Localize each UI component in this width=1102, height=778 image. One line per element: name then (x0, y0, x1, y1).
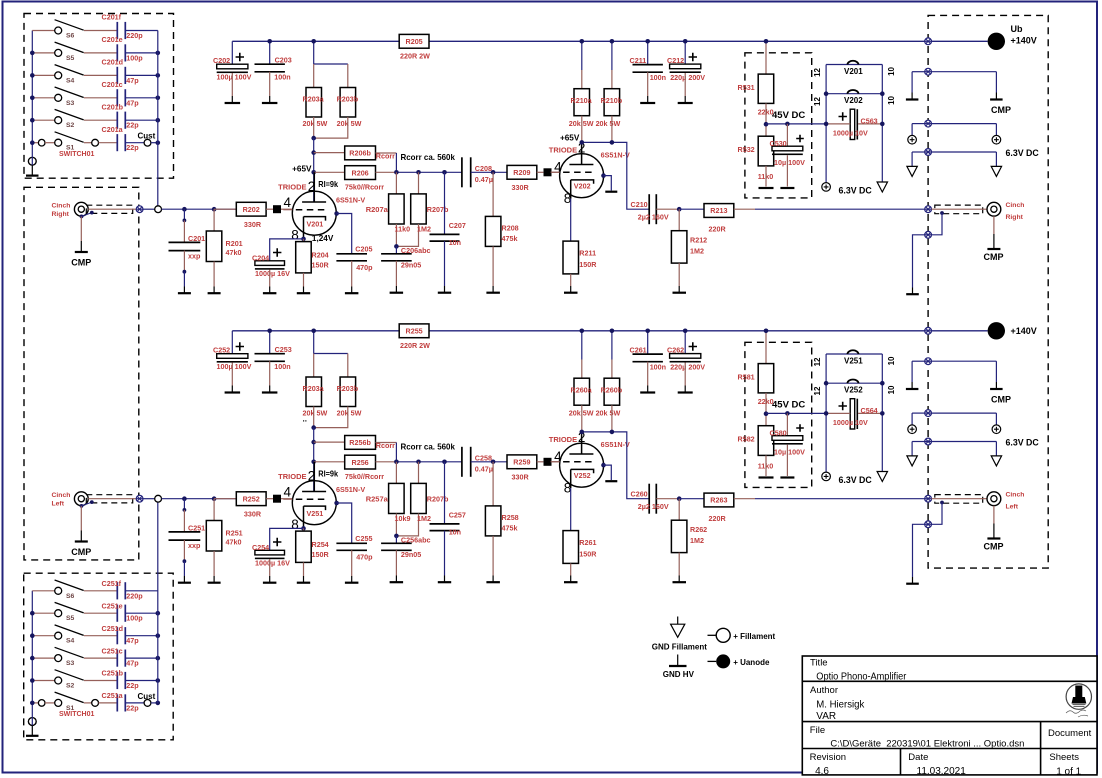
connector square V252 grid (544, 458, 552, 466)
+ filament symbol heater (822, 183, 831, 192)
junction right bus S5 (156, 611, 161, 616)
wire S1 to circle (84, 702, 92, 704)
junction right bus S1 (156, 140, 161, 145)
junction heater bus right (880, 381, 885, 386)
wire 45V to heater bus (766, 123, 826, 125)
resistor R256 (345, 455, 376, 469)
ground C202 (225, 96, 241, 103)
pin 4 V202 grid lead (551, 171, 560, 173)
wire heater bus right (881, 354, 883, 472)
triode V252 (560, 443, 604, 487)
triode V201 (292, 191, 336, 235)
svg-text:xxp: xxp (188, 541, 201, 550)
filament ground right (991, 456, 1001, 466)
wire C210 to node (656, 208, 679, 210)
wire tri left drop (911, 442, 913, 456)
wire to C256abc (395, 536, 397, 543)
wire S2 to capacitor C251b (84, 680, 117, 682)
polarity + C262 (689, 342, 697, 350)
svg-text:Cinch: Cinch (1006, 202, 1025, 209)
junction bus/C563 left (824, 122, 829, 127)
svg-text:C251f: C251f (102, 579, 122, 588)
svg-text:R261: R261 (579, 538, 596, 547)
junction output shield (940, 501, 944, 505)
resistor R205 (399, 34, 429, 48)
wire R209 to grid (537, 171, 544, 173)
wire R207a to C206abc (395, 224, 397, 246)
svg-text:CMP: CMP (991, 395, 1011, 405)
svg-text:V201: V201 (844, 67, 863, 76)
svg-text:R263: R263 (710, 496, 727, 505)
svg-text:29n05: 29n05 (401, 260, 421, 269)
wire S4 to capacitor C201d (84, 74, 117, 76)
wire rail to C202 (231, 41, 233, 64)
svg-text:V202: V202 (844, 96, 863, 105)
wire cathode to C254 (270, 528, 304, 550)
wire cinch to feedthrough (88, 498, 136, 500)
wire V251 grid (296, 498, 328, 500)
wire C201f to right bus (125, 30, 158, 32)
node Ub +140V terminal (988, 33, 1005, 50)
svg-text:SWITCH01: SWITCH01 (59, 711, 95, 718)
wire C211 to ground (647, 72, 649, 96)
svg-text:R208: R208 (502, 223, 519, 232)
svg-text:Rcorr ca. 560k: Rcorr ca. 560k (401, 153, 456, 162)
wire 6.3V row left (912, 441, 925, 443)
junction rail/C203 (267, 39, 272, 44)
wire output net (755, 498, 925, 500)
svg-text:C206abc: C206abc (401, 246, 431, 255)
wire R260b top lead (611, 360, 613, 379)
svg-text:Rcorr: Rcorr (376, 441, 395, 450)
svg-text:22p: 22p (126, 143, 139, 152)
junction left bus S5 (30, 51, 35, 56)
wire R258 to ground (492, 536, 494, 576)
wire C202 to ground (231, 73, 233, 96)
triode V202 (560, 154, 604, 198)
svg-text:CMP: CMP (984, 252, 1004, 262)
junction left bus S3 (30, 656, 35, 661)
svg-text:C530: C530 (770, 139, 787, 148)
wire R203a bottom lead (313, 117, 315, 138)
wire bank right bus to input tap (157, 31, 159, 206)
wire to R251 (213, 499, 215, 521)
svg-text:12: 12 (813, 386, 822, 395)
capacitor C205 (336, 254, 367, 261)
polarity + C530 (796, 135, 804, 143)
wire V202 cathode to R211 (570, 199, 572, 242)
ground R211 (564, 286, 578, 293)
svg-text:C253: C253 (275, 345, 292, 354)
wire rail to C262 (684, 331, 686, 355)
svg-text:2µ2 160V: 2µ2 160V (638, 213, 669, 222)
wire tri right drop (995, 442, 997, 456)
wire R213 right lead (734, 208, 755, 210)
polarity + C563 (839, 112, 847, 120)
svg-text:470p: 470p (356, 552, 373, 561)
connector Cinch Left output (987, 492, 1001, 506)
connector Cinch Left input (74, 492, 88, 506)
switch S3 (32, 87, 83, 101)
dashed box 45V supply (745, 342, 812, 487)
capacitor C251d (117, 627, 125, 644)
svg-text:CMP: CMP (71, 547, 91, 557)
feedthrough +140V rail (925, 38, 932, 45)
svg-text:4: 4 (284, 195, 292, 210)
svg-text:1M2: 1M2 (417, 225, 431, 234)
wire C251c to right bus (125, 657, 158, 659)
wire C251 top lead (183, 510, 185, 532)
wire R201 to ground (213, 262, 215, 287)
svg-text:220p: 220p (126, 591, 143, 600)
wire S3 to capacitor C201c (84, 97, 117, 99)
wire R204 to ground (303, 273, 305, 287)
wire S6 to capacitor C251f (84, 590, 117, 592)
wire R203b bottom lead (314, 407, 348, 428)
svg-text:+65V: +65V (560, 134, 580, 143)
ground C212 (678, 96, 693, 103)
wire feedthrough to cinch out (932, 208, 988, 210)
capacitor C251b (117, 672, 125, 689)
wire C201c to right bus (125, 97, 158, 99)
resistor R204 (296, 242, 312, 273)
junction V252 shield (601, 463, 606, 468)
junction right bus S4 (156, 73, 161, 78)
wire C251f to right bus (125, 590, 158, 592)
wire output net (755, 208, 925, 210)
svg-text:Author: Author (810, 685, 838, 696)
resistor R206b (345, 146, 376, 160)
svg-text:S2: S2 (66, 122, 75, 129)
svg-text:C564: C564 (861, 406, 878, 415)
node +65V stage1 (311, 170, 316, 175)
svg-text:22p: 22p (126, 121, 139, 130)
wire C204 to ground (269, 270, 271, 287)
svg-text:1000µ 16V: 1000µ 16V (255, 559, 290, 568)
svg-text:6.3V DC: 6.3V DC (839, 186, 873, 196)
svg-text:C251: C251 (188, 524, 205, 533)
polarity + C202 (236, 53, 244, 61)
wire CMP row left (912, 71, 925, 73)
feedthrough 6.3V plus (925, 120, 932, 127)
svg-text:R203b: R203b (337, 384, 359, 393)
filament ground heater (877, 472, 887, 482)
svg-text:TRIODE: TRIODE (278, 472, 306, 481)
svg-text:R202: R202 (243, 205, 260, 214)
wire R207b bottom (396, 224, 418, 246)
junction C201 top stub (183, 219, 187, 223)
svg-text:C207: C207 (449, 221, 466, 230)
svg-text:330R: 330R (512, 183, 530, 192)
resistor R213 (704, 204, 734, 218)
svg-text:S3: S3 (66, 100, 75, 107)
connector circle Cust (144, 700, 151, 707)
wire C206abc to ground (395, 261, 397, 286)
wire R203 to V251 anode (+65V net) (313, 428, 315, 492)
svg-text:xxp: xxp (188, 251, 201, 260)
wire rail to R531 (765, 41, 767, 74)
wire V252 cathode to R261 (570, 488, 572, 531)
connector circle bank left bus end (28, 718, 36, 726)
resistor R532 (758, 136, 774, 166)
pin 4 V201 grid lead (283, 209, 292, 211)
capacitor C207 (430, 234, 460, 241)
svg-text:220p: 220p (126, 31, 143, 40)
wire bank left bus to input tap (157, 502, 159, 703)
feedthrough output signal (925, 495, 932, 502)
resistor R202 (236, 202, 266, 216)
wire feedthrough to tap (143, 498, 155, 500)
wire R260a bottom lead (581, 405, 583, 432)
ground R532 (759, 187, 774, 189)
svg-text:C255: C255 (355, 534, 372, 543)
ground C261 (640, 386, 655, 393)
wire rail to R260a (581, 331, 583, 360)
svg-text:R203b: R203b (337, 95, 359, 104)
wire R212 to ground (678, 263, 680, 286)
svg-text:C201e: C201e (102, 35, 123, 44)
wire 6.3V row right (932, 151, 997, 153)
wire C201e to right bus (125, 52, 158, 54)
feedthrough CMP (925, 358, 932, 365)
ground C251 (178, 576, 191, 583)
wire rail to C261 (647, 331, 649, 355)
svg-text:Cinch: Cinch (1006, 492, 1025, 499)
resistor R256b (345, 436, 376, 450)
wire R206 net to C208 (396, 461, 462, 463)
wire node to R212 (678, 209, 680, 231)
wire cinch to feedthrough (88, 208, 136, 210)
wire to C580 (786, 413, 788, 436)
resistor R210a (574, 89, 590, 116)
pin 4 V251 grid lead (283, 498, 292, 500)
wire to R257a (395, 462, 397, 484)
wire C201b to right bus (125, 119, 158, 121)
feedthrough CMP (925, 68, 932, 75)
svg-text:V202: V202 (574, 182, 591, 191)
switch S1 (32, 132, 83, 146)
wire to capacitor C251a (99, 702, 118, 704)
svg-text:6S51N-V: 6S51N-V (336, 485, 365, 494)
junction V201 cathode right (334, 211, 339, 216)
junction right bus S3 (156, 656, 161, 661)
svg-text:C204: C204 (252, 253, 269, 262)
svg-text:C256abc: C256abc (401, 536, 431, 545)
switch S4 (32, 625, 83, 639)
svg-text:R531: R531 (738, 83, 755, 92)
feedthrough output signal (925, 206, 932, 213)
logo tube emblem (1066, 684, 1092, 717)
wire 45V to heater bus (766, 412, 826, 414)
svg-text:47k0: 47k0 (226, 248, 242, 257)
svg-text:Optio Phono-Amplifier: Optio Phono-Amplifier (816, 671, 907, 682)
wire R211 to ground (570, 274, 572, 286)
dashed box input connectors (24, 187, 139, 560)
wire net to C257 (444, 462, 446, 524)
wire 6.3V plus row right (932, 412, 997, 414)
svg-text:R210b: R210b (601, 96, 623, 105)
wire node to R263 (679, 498, 704, 500)
junction left bus S2 (30, 118, 35, 123)
wire C530 to ground (786, 155, 788, 186)
svg-text:C201c: C201c (102, 80, 123, 89)
svg-text:C210: C210 (631, 200, 648, 209)
junction shield stub (90, 500, 94, 504)
svg-text:20k 5W: 20k 5W (303, 119, 328, 128)
legend HV ground symbol (669, 655, 687, 667)
ground CMP input (75, 241, 88, 252)
ground C253 (262, 386, 278, 393)
resistor R255 (399, 324, 429, 338)
wire +65V to R256 (314, 461, 345, 463)
svg-text:220µ 200V: 220µ 200V (670, 73, 705, 82)
svg-text:Cinch: Cinch (52, 202, 71, 209)
junction R207/C206abc (394, 534, 399, 539)
wire +140V rail (232, 40, 924, 42)
svg-text:45V DC: 45V DC (772, 110, 805, 121)
svg-text:C251d: C251d (102, 624, 124, 633)
wire to R202 (214, 208, 236, 210)
resistor R203a (306, 88, 322, 118)
junction left bus S4 (30, 633, 35, 638)
wire rail to C211 (647, 41, 649, 65)
resistor R531 (758, 74, 774, 103)
wire R260b bottom lead (611, 405, 613, 432)
junction heater bus right (880, 91, 885, 96)
wire C201 top lead (183, 220, 185, 242)
wire R259 to grid (537, 461, 544, 463)
wire Cust to right bus (151, 702, 158, 704)
ground CMP input (75, 531, 88, 542)
svg-text:V252: V252 (844, 386, 863, 395)
junction left bus S1 (30, 140, 35, 145)
filament ground right (991, 166, 1001, 176)
resistor R260a (574, 378, 590, 405)
junction net/C207 (442, 460, 447, 465)
wire rail to R210a (581, 41, 583, 70)
svg-text:1000µ 16V: 1000µ 16V (255, 269, 290, 278)
junction C210/R212/R213 (677, 207, 682, 212)
ground C257 (438, 576, 451, 583)
junction cathode/R204 (301, 526, 306, 531)
wire 6.3V row left (912, 151, 925, 153)
ground C254 (263, 576, 277, 583)
wire plus left drop (911, 413, 913, 425)
svg-text:Left: Left (1006, 504, 1019, 511)
capacitor C208 (462, 157, 471, 187)
resistor R260b (604, 378, 620, 405)
junction output shield (940, 211, 944, 215)
svg-text:+ Fillament: + Fillament (733, 632, 775, 641)
junction right bus S5 (156, 51, 161, 56)
wire C563 leads (826, 123, 882, 125)
svg-text:C201d: C201d (102, 58, 124, 67)
svg-text:C252: C252 (213, 346, 230, 355)
capacitor C530 (772, 146, 803, 155)
capacitor C201f (117, 22, 125, 39)
wire cinch shield stub (82, 213, 92, 217)
wire to R207b (418, 462, 420, 484)
wire CMP right drop (995, 72, 997, 93)
junction left bus S1 (30, 701, 35, 706)
junction shield stub (90, 211, 94, 215)
svg-text:100n: 100n (650, 362, 666, 371)
wire V201 grid (296, 209, 328, 211)
capacitor C251 (169, 532, 201, 540)
feedthrough output shield (925, 521, 932, 528)
wire CMP row right (932, 71, 997, 73)
junction 45V/C530 (785, 122, 790, 127)
svg-text:Rcorr: Rcorr (376, 152, 395, 161)
dashed box 45V supply (745, 53, 812, 198)
svg-text:475k: 475k (502, 234, 518, 243)
junction +65V/R206b (311, 440, 316, 445)
svg-text:10µ 100V: 10µ 100V (774, 448, 805, 457)
svg-text:1000µ 10V: 1000µ 10V (833, 418, 868, 427)
svg-text:R207a: R207a (366, 205, 389, 214)
wire to R206b (314, 152, 345, 154)
svg-text:C260: C260 (631, 490, 648, 499)
capacitor C251e (117, 605, 125, 622)
legend + Uanode symbol (708, 654, 731, 668)
wire R206b to Rcorr net (376, 152, 397, 154)
junction rail/R203 (311, 39, 316, 44)
svg-text:11k0: 11k0 (395, 225, 411, 234)
wire 6.3V plus row left (912, 123, 925, 125)
wire R203b top lead (347, 354, 349, 378)
svg-text:V201: V201 (307, 220, 324, 229)
junction right bus S4 (156, 633, 161, 638)
wire shield to ground (913, 524, 925, 577)
svg-text:10: 10 (887, 356, 896, 365)
capacitor C201c (117, 89, 125, 106)
svg-text:2: 2 (308, 468, 316, 483)
wire R210a bottom lead (581, 116, 583, 143)
wire R582 to ground (765, 455, 767, 476)
svg-text:R581: R581 (738, 373, 755, 382)
svg-text:Revision: Revision (810, 752, 846, 763)
resistor R258 (485, 506, 501, 536)
junction bus/C563 right (880, 411, 885, 416)
wire V202 cathode (571, 180, 594, 199)
ground R262 (673, 576, 687, 583)
wire V202 grid (563, 171, 595, 173)
wire heater bus left (825, 354, 827, 472)
junction right bus S2 (156, 118, 161, 123)
svg-text:CMP: CMP (71, 258, 91, 268)
wire to C251 (183, 499, 185, 510)
wire R210a top lead (581, 70, 583, 89)
switch S3 (32, 647, 83, 661)
svg-text:Cust: Cust (138, 132, 156, 141)
wire 6.3V plus row right (932, 123, 997, 125)
feedthrough 6.3V plus (925, 410, 932, 417)
wire C212 to ground (684, 73, 686, 96)
svg-text:R256: R256 (352, 458, 369, 467)
svg-text:Right: Right (1006, 214, 1024, 221)
junction C201 bottom stub (183, 270, 187, 274)
capacitor C257 (430, 524, 460, 531)
junction heater bus left (824, 91, 829, 96)
svg-text:100p: 100p (126, 614, 143, 623)
shield cable box input (86, 495, 132, 503)
capacitor C256abc (381, 543, 412, 550)
wire to R201 (213, 209, 215, 231)
wire S6 to capacitor C201f (84, 30, 117, 32)
svg-text:12: 12 (813, 357, 822, 366)
svg-text:100n: 100n (274, 73, 290, 82)
svg-text:S3: S3 (66, 660, 75, 667)
